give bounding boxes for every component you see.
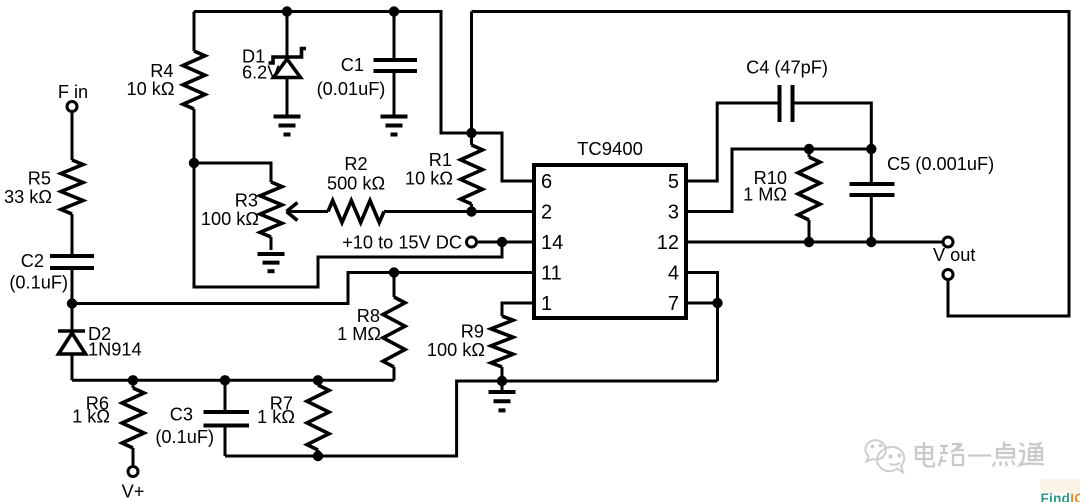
junction R1 / pin6 link — [466, 128, 476, 138]
junction bottom rail / R7 — [313, 451, 323, 461]
resistor R7 — [257, 380, 329, 450]
wire D2 to bottom-left rail — [71, 354, 74, 380]
pin 3 label — [668, 202, 679, 224]
pin 12 label — [657, 232, 679, 254]
wire F in to R5 — [71, 113, 74, 160]
svg-text:R5: R5 — [28, 169, 51, 189]
svg-text:(0.01uF): (0.01uF) — [317, 79, 386, 99]
watermark text — [916, 442, 1044, 467]
svg-text:10 kΩ: 10 kΩ — [127, 79, 175, 99]
svg-text:V+: V+ — [122, 482, 145, 502]
wire V out loop (top rail 2 and right side) — [472, 12, 1070, 317]
wire R10 to pin 12 line — [808, 220, 811, 242]
junction pin7 / pin4 — [712, 298, 722, 308]
wire node A to pin 11 — [72, 273, 534, 304]
wire C1 to ground — [393, 71, 396, 116]
wire supply terminal to pin 14 — [478, 241, 534, 244]
svg-text:R3: R3 — [235, 191, 258, 211]
svg-text:F in: F in — [58, 82, 88, 102]
watermark wechat icon — [865, 440, 904, 472]
svg-text:3: 3 — [668, 202, 679, 224]
wire supply staircase to node B — [194, 163, 502, 287]
wire R3 to ground — [270, 237, 273, 250]
resistor R4 — [127, 51, 205, 109]
watermark FindIC logo — [1040, 479, 1080, 502]
svg-text:6.2V: 6.2V — [242, 63, 280, 83]
pin 7 label — [668, 293, 679, 315]
svg-text:6: 6 — [541, 171, 552, 193]
wire pin 12 to V out — [686, 241, 942, 244]
potentiometer R3 — [201, 182, 298, 237]
svg-text:R8: R8 — [357, 306, 380, 326]
svg-text:100 kΩ: 100 kΩ — [201, 209, 259, 229]
svg-text:R9: R9 — [461, 322, 484, 342]
junction rail / R6 — [128, 375, 138, 385]
wire pin 5 to C4 — [686, 103, 780, 181]
pin 1 label — [541, 293, 552, 315]
wire R5 to C2 — [71, 214, 74, 254]
zener diode D1 — [242, 47, 306, 83]
capacitor C1 — [317, 55, 417, 99]
wire rail to R4 — [193, 12, 196, 52]
svg-text:1 kΩ: 1 kΩ — [72, 407, 110, 427]
junction R1 / pin2 line — [466, 206, 476, 216]
node B (R4/R3/V+ junction) — [189, 158, 199, 168]
wire R6 to V+ terminal — [132, 448, 135, 465]
wire R3 wiper to R2 — [287, 210, 329, 213]
wire pin 3 to R10 line — [686, 149, 871, 212]
svg-text:1 MΩ: 1 MΩ — [743, 185, 787, 205]
resistor R1 — [405, 145, 482, 204]
wire Vout-rail to R1 — [470, 12, 473, 146]
svg-text:C3: C3 — [170, 405, 193, 425]
terminal +10 to 15V DC — [342, 233, 476, 253]
ground (C1) — [381, 117, 408, 135]
wire rail to D1 — [286, 12, 289, 58]
wire C5 to pin 12 line — [870, 195, 873, 242]
terminal V out upper — [943, 237, 953, 247]
wire R1 to pin2 line — [470, 204, 473, 212]
pin 11 label — [541, 263, 562, 285]
wire R4 to node B — [193, 109, 196, 163]
pin 5 label — [668, 171, 679, 193]
svg-text:5: 5 — [668, 171, 679, 193]
svg-text:12: 12 — [657, 232, 679, 254]
junction R10 / pin12 line — [804, 237, 814, 247]
diode D2 — [58, 324, 142, 360]
svg-text:V out: V out — [933, 245, 975, 265]
capacitor C4 — [746, 58, 828, 123]
wire R7 to bottom rail — [317, 450, 320, 456]
svg-text:FindIC: FindIC — [1041, 491, 1080, 502]
wire rail to C1 — [393, 12, 396, 61]
svg-text:1 MΩ: 1 MΩ — [337, 324, 381, 344]
svg-text:11: 11 — [541, 263, 562, 285]
svg-text:4: 4 — [668, 263, 679, 285]
svg-text:1: 1 — [541, 293, 552, 315]
wire D1 to ground — [286, 78, 289, 117]
svg-text:+10 to 15V DC: +10 to 15V DC — [342, 233, 462, 253]
junction top rail / C1 — [389, 6, 399, 16]
ground (R3) — [258, 254, 285, 271]
junction ground net / R9 — [497, 376, 507, 386]
svg-text:1N914: 1N914 — [88, 340, 142, 360]
resistor R8 — [337, 273, 405, 368]
wire R9 to ground node — [501, 367, 504, 381]
label V out — [933, 245, 975, 265]
svg-text:TC9400: TC9400 — [577, 138, 643, 159]
wire pin 1 to R9 — [502, 303, 534, 316]
svg-text:14: 14 — [541, 232, 563, 254]
svg-text:C5 (0.001uF): C5 (0.001uF) — [887, 154, 994, 174]
wire bottom-left rail (D2/R6/C3/R7/R8 net) — [72, 379, 394, 382]
svg-text:1 kΩ: 1 kΩ — [257, 407, 295, 427]
wire C3 to bottom rail — [224, 428, 227, 457]
capacitor C3 — [155, 380, 249, 447]
junction C4 / R10 line — [866, 144, 876, 154]
node A (C2/D2/pin11 junction) — [67, 298, 77, 308]
wire R2 to pin 2 — [384, 210, 534, 213]
svg-text:500 kΩ: 500 kΩ — [327, 174, 385, 194]
wire node B to R3 — [194, 163, 271, 182]
ground (main) — [489, 381, 516, 410]
junction rail / R7 — [313, 375, 323, 385]
svg-text:C1: C1 — [341, 55, 364, 75]
capacitor C5 — [850, 154, 995, 195]
wire bottom rail — [225, 381, 718, 456]
svg-text:100 kΩ: 100 kΩ — [427, 340, 485, 360]
junction R10 top — [804, 144, 814, 154]
pin 14 label — [541, 232, 563, 254]
svg-text:33 kΩ: 33 kΩ — [4, 187, 52, 207]
op-amp U1 TC9400 — [534, 138, 686, 318]
svg-text:R2: R2 — [344, 154, 367, 174]
svg-text:(0.1uF): (0.1uF) — [9, 273, 68, 293]
pin 2 label — [541, 202, 552, 224]
svg-text:C4 (47pF): C4 (47pF) — [746, 58, 828, 78]
wire pin 7 to ground net — [686, 303, 718, 381]
capacitor C2 — [9, 251, 94, 293]
junction top rail / D1 — [282, 6, 292, 16]
wire C4 to C5 column — [793, 103, 872, 184]
resistor R9 — [427, 316, 513, 367]
ground (D1) — [274, 117, 301, 135]
junction pin11 / R8 — [389, 267, 399, 277]
junction rail / C3 — [220, 375, 230, 385]
resistor R10 — [743, 149, 820, 220]
wire R8 to bottom-left rail — [393, 367, 396, 380]
svg-text:7: 7 — [668, 293, 679, 315]
wire C2 to node A — [71, 270, 74, 304]
svg-text:R1: R1 — [429, 150, 452, 170]
junction supply / staircase — [497, 237, 507, 247]
junction C5 / pin12 line — [866, 237, 876, 247]
pin 6 label — [541, 171, 552, 193]
svg-text:2: 2 — [541, 202, 552, 224]
svg-text:10 kΩ: 10 kΩ — [405, 169, 453, 189]
svg-text:R4: R4 — [150, 61, 173, 81]
terminal V+ — [122, 467, 145, 502]
wire top rail (R4/D1/C1 net) — [194, 12, 534, 182]
resistor R6 — [72, 380, 144, 448]
resistor R2 — [327, 154, 385, 223]
terminal V out lower — [943, 270, 953, 280]
wire pin 4 to ground net — [686, 273, 718, 304]
svg-text:C2: C2 — [21, 251, 44, 271]
wire node A to D2 — [71, 304, 74, 332]
terminal F in — [58, 82, 88, 112]
svg-text:(0.1uF): (0.1uF) — [155, 427, 214, 447]
resistor R5 — [4, 160, 83, 214]
pin 4 label — [668, 263, 679, 285]
